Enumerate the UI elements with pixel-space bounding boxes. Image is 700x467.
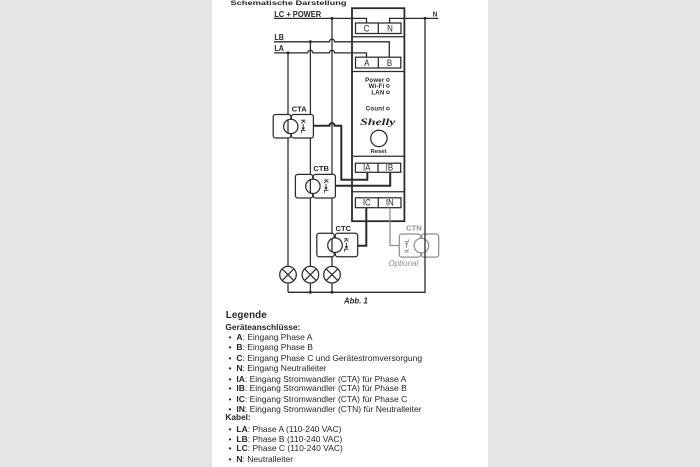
svg-text:A: A	[364, 57, 370, 68]
terminal IA label	[363, 162, 371, 173]
svg-text:CTA: CTA	[292, 104, 308, 113]
svg-text:IB: IB	[386, 162, 394, 173]
terminal B label	[387, 57, 393, 68]
label LA	[274, 44, 284, 54]
lamp L2 phase B	[302, 266, 319, 292]
svg-text:LAN: LAN	[371, 89, 384, 96]
svg-text:IN: IN	[386, 197, 394, 208]
terminal A label	[364, 57, 370, 68]
svg-text:L: L	[322, 189, 328, 193]
wire CTA through conductor	[287, 119, 289, 134]
section line below Reset	[352, 155, 404, 157]
label LC + POWER	[274, 9, 321, 19]
terminal IN label	[386, 197, 394, 208]
svg-text:Count: Count	[366, 106, 385, 113]
LED LAN	[371, 89, 389, 96]
svg-text:Optional: Optional	[389, 259, 419, 268]
wire CTB secondary to IB	[335, 172, 390, 186]
terminal N label	[387, 23, 393, 34]
label CTB	[313, 164, 329, 173]
wire terminal N to N net	[390, 18, 439, 23]
title Schematische Darstellung	[230, 0, 346, 7]
svg-text:B: B	[387, 57, 393, 68]
wire LB to terminal B	[274, 39, 389, 57]
label CTA	[292, 104, 308, 113]
svg-text:CTC: CTC	[336, 224, 352, 233]
terminal IB label	[386, 162, 394, 173]
section line below A/B terminals	[352, 71, 404, 73]
node lamp2 junction	[309, 291, 312, 294]
wire phase C bus	[331, 18, 333, 266]
terminal C label	[364, 23, 370, 34]
LED Wi-Fi	[369, 83, 390, 90]
terminal block IA/IB	[355, 163, 400, 172]
svg-text:IA: IA	[363, 162, 371, 173]
section line below IA/IB section	[352, 191, 404, 193]
svg-text:Schematische Darstellung: Schematische Darstellung	[230, 0, 346, 7]
current transformer CTC	[317, 233, 358, 256]
LED Power	[365, 77, 389, 84]
wire phase B bus	[309, 42, 311, 267]
svg-text:K: K	[322, 179, 328, 184]
device U1 Shelly Pro 3EM outline	[352, 8, 404, 221]
svg-text:Reset: Reset	[370, 149, 386, 155]
Shelly logo	[360, 116, 396, 127]
wire IN to CTN (gray)	[390, 208, 399, 246]
svg-text:Shelly: Shelly	[360, 116, 396, 127]
label N	[433, 11, 437, 19]
terminal block IC/IN	[355, 198, 401, 208]
legend	[226, 310, 267, 321]
node N junction	[424, 17, 427, 20]
svg-text:LB: LB	[274, 32, 284, 42]
Reset button	[371, 130, 387, 146]
svg-text:K: K	[405, 248, 411, 253]
terminal IC label	[363, 197, 371, 208]
node LC junction	[331, 17, 334, 20]
svg-text:Abb. 1: Abb. 1	[343, 297, 368, 306]
LED Count	[366, 106, 390, 113]
svg-text:CTB: CTB	[313, 164, 329, 173]
wire LA to terminal A	[274, 50, 367, 57]
wire CTC secondary to IC	[358, 208, 367, 246]
wire neutral bus N	[288, 18, 425, 292]
svg-text:L: L	[405, 239, 411, 243]
node lamp3 junction	[331, 291, 334, 294]
label CTC	[336, 224, 352, 233]
current transformer CTB	[295, 174, 335, 198]
wire CTA secondary to IA	[313, 123, 367, 180]
wire CTC through conductor	[331, 238, 333, 253]
label CTN	[406, 224, 422, 233]
svg-text:IC: IC	[363, 197, 371, 208]
caption Abb. 1	[343, 297, 368, 306]
terminal block C/N	[356, 23, 402, 34]
svg-text:N: N	[387, 23, 393, 34]
svg-text:LC + POWER: LC + POWER	[274, 9, 321, 19]
node LA junction	[287, 51, 290, 54]
lamp L3 phase C	[324, 266, 341, 292]
svg-text:LA: LA	[274, 44, 284, 54]
svg-text:C: C	[364, 23, 370, 34]
section line below C/N terminals	[352, 36, 404, 38]
wire CTB through conductor	[309, 179, 311, 194]
svg-text:L: L	[342, 248, 348, 252]
svg-text:L: L	[299, 130, 305, 134]
terminal block A/B	[356, 57, 401, 68]
label LB	[274, 32, 284, 42]
Reset label	[370, 149, 386, 155]
node LB junction	[309, 40, 312, 43]
svg-text:CTN: CTN	[406, 224, 422, 233]
lamp L1 phase A	[280, 266, 297, 292]
wire phase A bus	[287, 53, 289, 267]
current transformer CTN (optional, gray)	[399, 234, 438, 257]
svg-text:N: N	[433, 11, 437, 19]
current transformer CTA	[273, 115, 313, 139]
wire LC+POWER to terminal C	[274, 18, 367, 23]
svg-text:K: K	[342, 238, 348, 243]
svg-text:K: K	[299, 119, 305, 124]
label Optional	[389, 259, 419, 268]
